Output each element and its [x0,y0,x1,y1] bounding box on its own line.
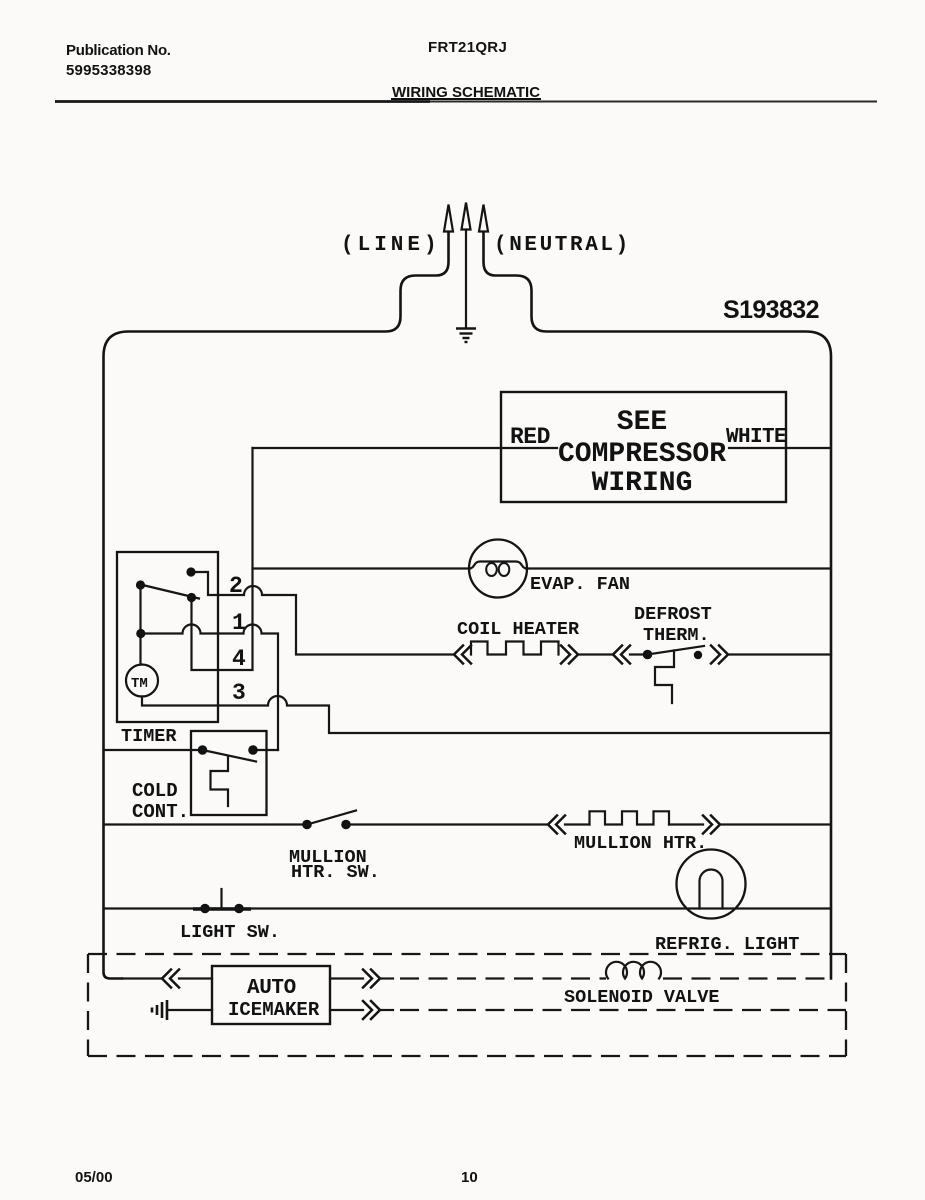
svg-text:CONT.: CONT. [132,801,189,823]
wire stub inside compressor box left [501,447,557,449]
arrowhead LINE terminal [444,205,453,232]
main border right section with NEUTRAL bump and right bus [484,232,832,979]
mullion heater element [590,811,670,824]
icemaker dashed enclosure top edge [88,953,846,955]
svg-text:ICEMAKER: ICEMAKER [228,999,320,1021]
connector chevrons left of defrost thermostat [613,646,630,664]
svg-text:COIL HEATER: COIL HEATER [457,619,580,640]
main border left section with LINE bump and left bus [104,232,449,979]
wire coil heater to defrost connector [578,653,613,655]
timer contact dot C [187,593,196,602]
timer contact dot D [136,629,145,638]
wire RED feed from timer node to compressor box [253,447,502,449]
icemaker dashed enclosure left edge [87,954,89,1056]
connector chevrons right of mullion heater [703,816,720,834]
wire from contact B down to timer motor [139,585,141,665]
mullion switch contact dot left [302,820,312,830]
wire mullion switch to heater connector [346,823,548,825]
timer contact dot B [136,580,145,589]
wire WHITE compressor to right bus [786,447,831,449]
svg-text:LIGHT SW.: LIGHT SW. [180,922,280,943]
svg-text:WIRING: WIRING [592,468,693,499]
earth ground symbol [456,329,476,343]
header title underline [391,98,541,100]
connector chevrons right on icemaker row 2 [363,1001,380,1019]
connector chevrons right of coil heater [561,646,578,664]
svg-text:THERM.: THERM. [643,625,710,646]
ground wire center [465,229,467,328]
wire cold control right contact to row 1 junction [253,749,278,751]
svg-text:TM: TM [131,676,148,692]
svg-text:REFRIG. LIGHT: REFRIG. LIGHT [655,934,799,955]
connector chevrons left of mullion heater [548,816,565,834]
svg-text:FRT21QRJ: FRT21QRJ [428,39,507,56]
wire left bus to mullion switch [104,823,308,825]
auto icemaker box [212,966,330,1024]
node vertical bus from compressor feed through contact 4 to timer contact C [192,448,253,670]
label SEE COMPRESSOR WIRING [558,407,726,499]
svg-text:COMPRESSOR: COMPRESSOR [558,439,726,470]
svg-text:DEFROST: DEFROST [634,604,712,625]
wire row 1 from contact D with hops to cold control [141,625,278,750]
wire mullion heater to right bus [720,823,831,825]
timer contact dot A [186,567,195,576]
defrost thermostat contact dot right [694,651,702,659]
connector chevrons left of coil heater [454,646,471,664]
defrost thermostat actuator staircase [655,651,674,704]
svg-text:05/00: 05/00 [75,1169,113,1186]
cold control contact dot right [248,745,258,755]
wire mullion heater to connector [669,823,703,825]
icemaker dashed enclosure right edge [845,954,847,1056]
solenoid valve coil [606,962,661,979]
timer motor TM [126,665,158,697]
wire icemaker box to right connector row 1 [330,977,363,979]
arrowhead NEUTRAL terminal [479,205,488,232]
svg-text:SOLENOID VALVE: SOLENOID VALVE [564,987,719,1008]
wire from contact A down to row 2 [191,572,218,595]
cold control actuator staircase [211,757,229,807]
svg-text:10: 10 [461,1169,478,1186]
wire connector to icemaker box [179,977,212,979]
light switch plunger [220,889,222,909]
connector chevrons right of defrost thermostat [711,646,728,664]
wire connector to defrost contact [630,653,647,655]
dashed wire row 2 to dashed enclosure edge [400,1009,846,1011]
wire evap fan row left segment [253,567,471,569]
mullion switch contact dot right [341,820,351,830]
wire left bus to cold control contact [104,749,203,751]
svg-text:5995338398: 5995338398 [66,62,151,79]
stub after row 2 connector [380,1009,393,1011]
refrigerator light bulb circle [677,850,746,919]
light switch contact dot left [200,904,210,914]
defrost thermostat arm [648,646,705,655]
cold control contact dot left [198,745,208,755]
wire light switch row left bus to right bus [104,907,832,909]
connector chevrons right on icemaker row 1 [363,970,380,988]
wire icemaker box to right connector row 2 [330,1009,363,1011]
dashed wire solenoid to right bus [663,977,831,979]
connector chevrons left of auto icemaker [162,970,179,988]
wire connector to mullion heater [565,823,590,825]
stub after row 1 connector [380,977,393,979]
wire left bus corner to icemaker connector [122,977,162,979]
cold control box [191,731,267,815]
svg-text:3: 3 [232,680,246,706]
svg-text:WHITE: WHITE [726,426,786,449]
svg-text:HTR. SW.: HTR. SW. [291,862,380,883]
cold control switch arm [203,750,257,762]
evap fan motor circle [469,540,527,598]
mullion switch arm [307,811,356,825]
svg-text:RED: RED [510,424,550,450]
coil heater element [471,642,559,655]
icemaker dashed enclosure bottom edge [88,1055,846,1057]
timer box [117,552,218,722]
svg-text:TIMER: TIMER [121,726,177,747]
arrowhead ground terminal [462,203,471,230]
defrost thermostat contact dot left [643,650,653,660]
svg-text:4: 4 [232,646,246,672]
svg-text:(NEUTRAL): (NEUTRAL) [494,234,631,257]
wire ground to icemaker box [167,1009,212,1011]
wire row 3 timer motor to lower bus with hop [142,696,831,733]
header rule [55,100,430,103]
svg-text:Publication No.: Publication No. [66,42,171,59]
wire defrost to right bus [728,653,831,655]
wire evap fan row right segment [526,567,831,569]
svg-text:EVAP. FAN: EVAP. FAN [530,574,630,595]
timer switch arm B to C [141,585,200,599]
light switch base segment [193,907,251,910]
evap fan winding loops [486,563,497,576]
chassis ground symbol for icemaker [152,1000,167,1020]
svg-text:COLD: COLD [132,780,178,802]
refrigerator light filament [700,870,723,909]
wire row 2 from contact A to coil heater circuit with hop over bus [218,586,453,655]
svg-text:S193832: S193832 [723,296,819,324]
svg-text:AUTO: AUTO [247,977,296,1000]
evap fan winding raised segment [469,562,527,569]
see compressor wiring box [501,392,786,502]
light switch contact dot right [234,904,244,914]
svg-text:SEE: SEE [617,407,667,438]
dashed wire row 1 to solenoid [400,977,606,979]
wire stub inside compressor box right [729,447,786,449]
svg-text:(LINE): (LINE) [341,234,441,257]
svg-text:MULLION HTR.: MULLION HTR. [574,833,707,854]
